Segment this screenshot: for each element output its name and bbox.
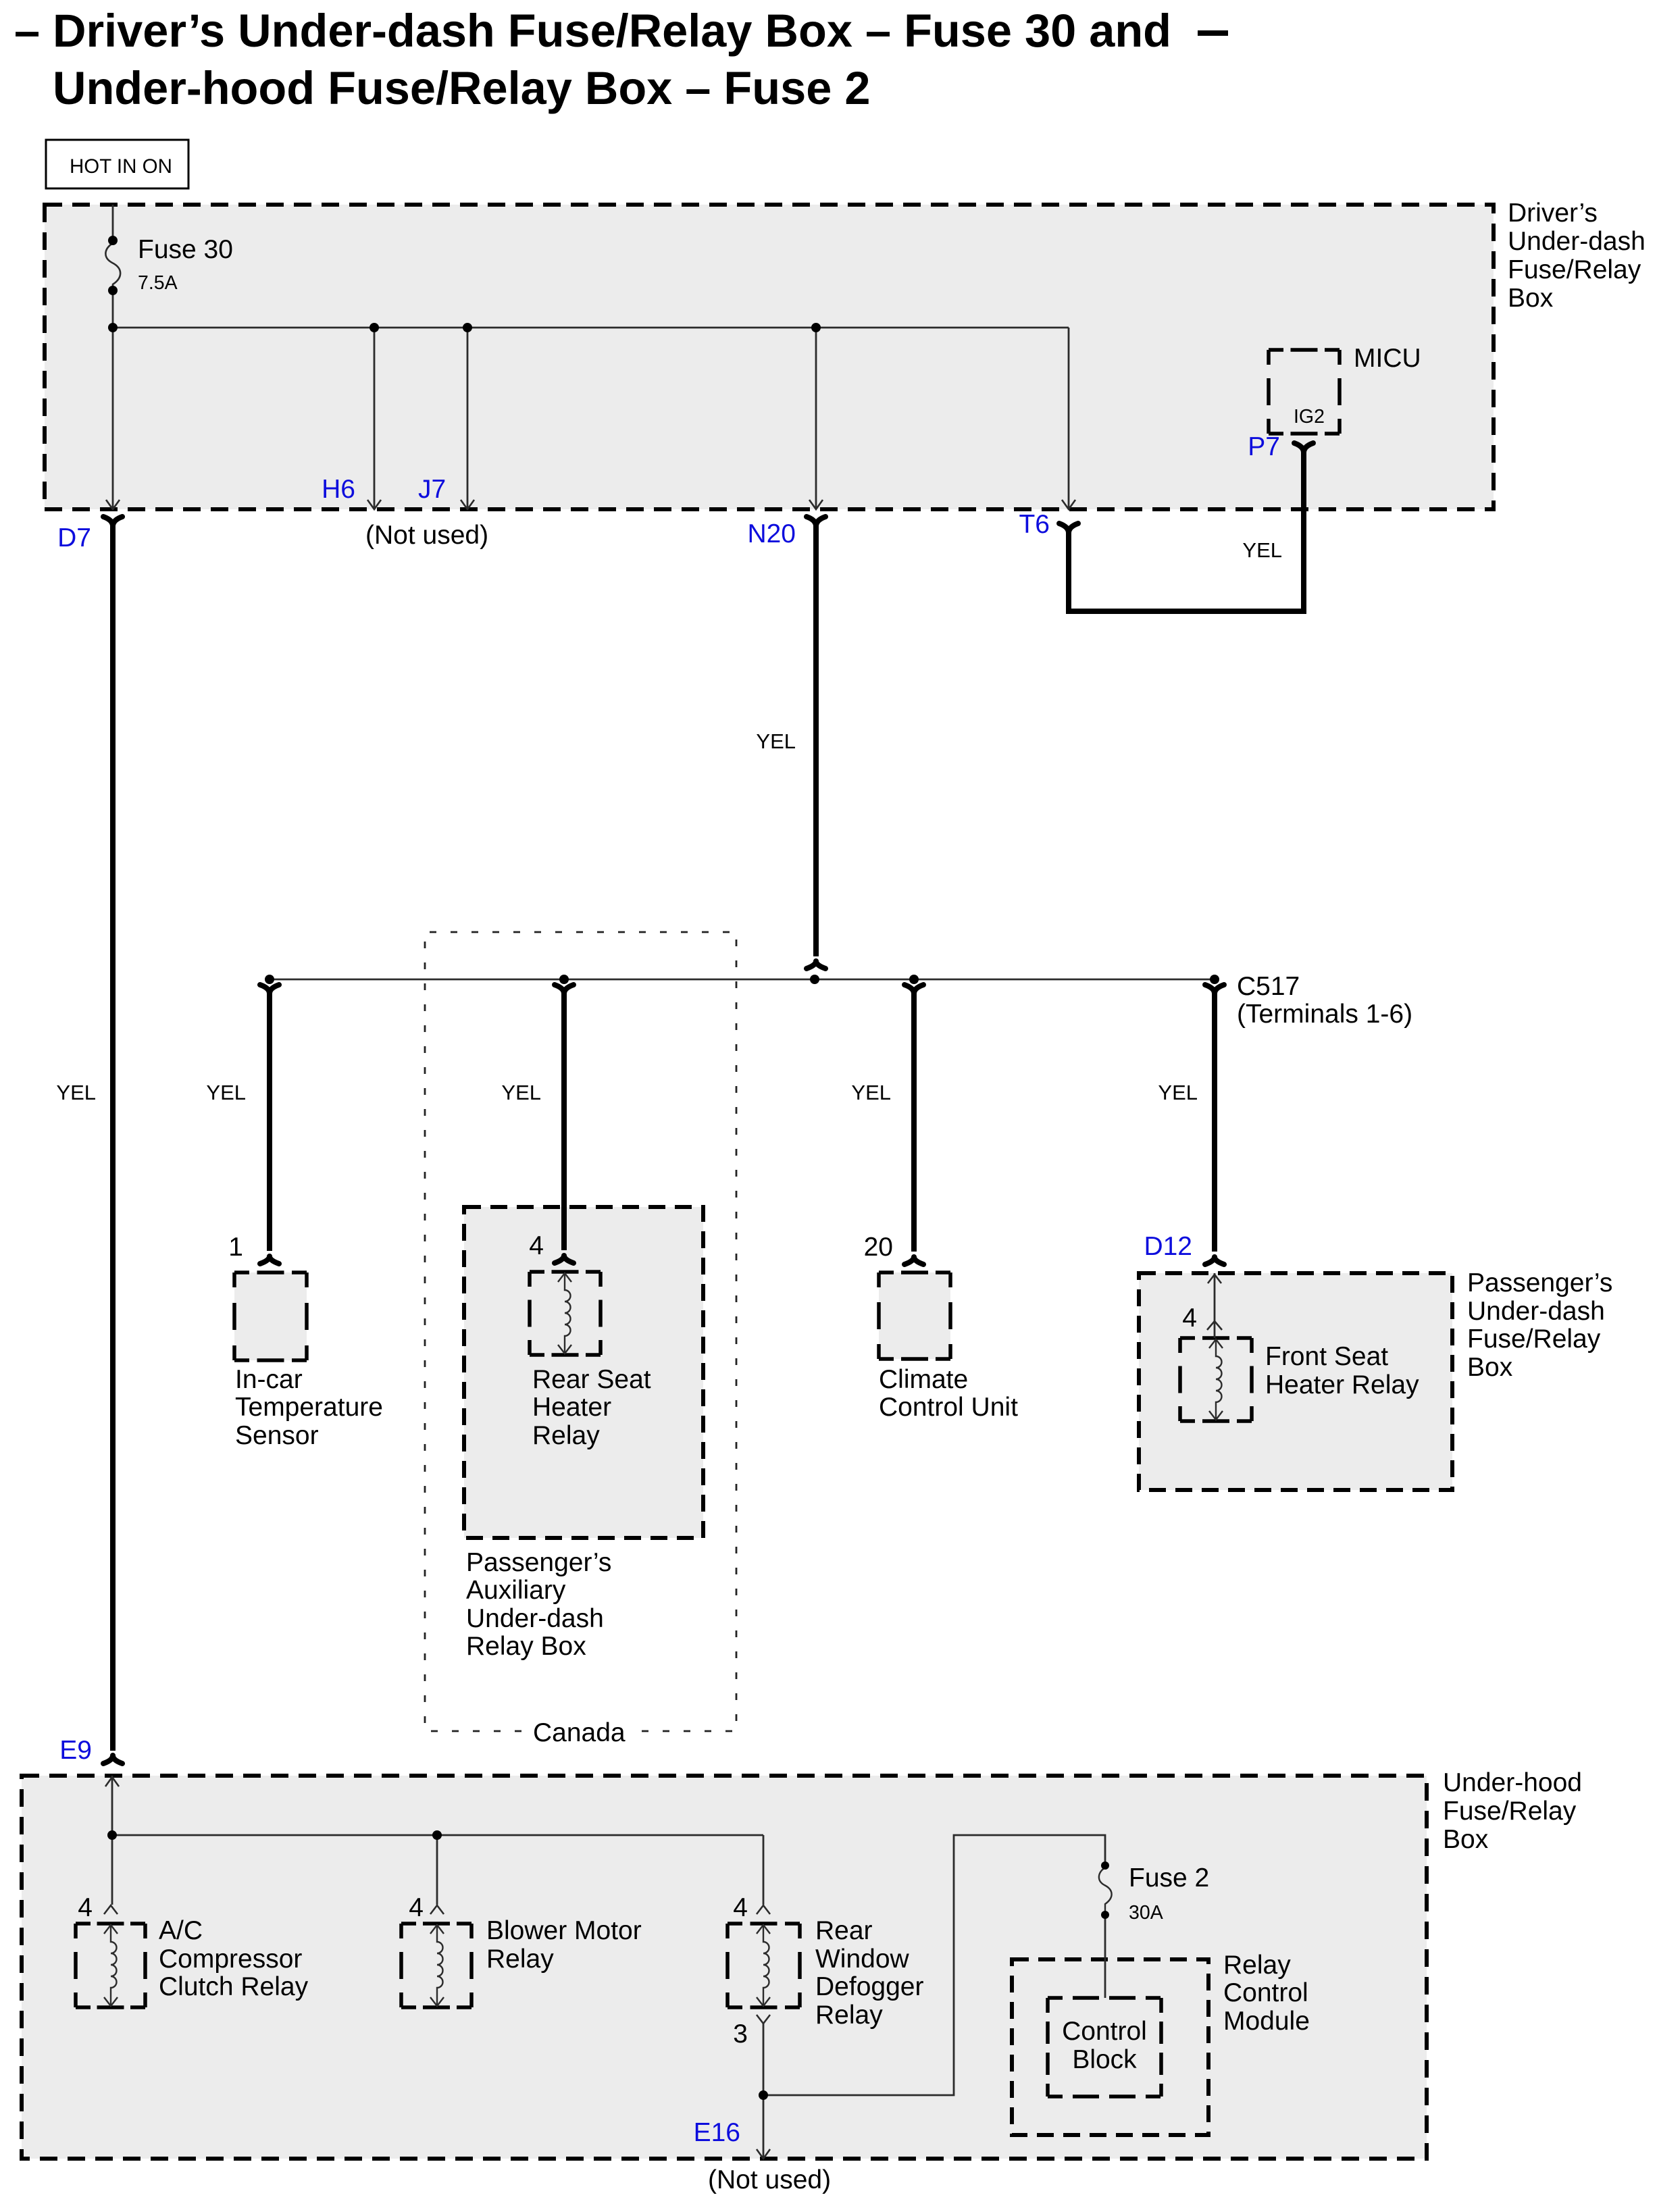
svg-text:Compressor: Compressor	[159, 1945, 302, 1974]
svg-text:Front Seat: Front Seat	[1265, 1342, 1388, 1371]
svg-text:Driver’s: Driver’s	[1508, 199, 1598, 228]
svg-text:Climate: Climate	[879, 1365, 968, 1394]
svg-text:–: –	[14, 5, 40, 57]
svg-text:7.5A: 7.5A	[138, 272, 178, 294]
svg-text:Window: Window	[815, 1945, 910, 1974]
svg-text:In-car: In-car	[235, 1365, 303, 1394]
svg-text:Rear: Rear	[815, 1916, 873, 1945]
svg-text:YEL: YEL	[1158, 1081, 1198, 1104]
svg-text:30A: 30A	[1129, 1902, 1163, 1924]
svg-text:Heater: Heater	[532, 1393, 611, 1422]
svg-text:Module: Module	[1223, 2007, 1310, 2036]
svg-text:4: 4	[1182, 1304, 1197, 1333]
svg-text:YEL: YEL	[501, 1081, 541, 1104]
svg-text:Under-dash: Under-dash	[466, 1604, 604, 1633]
svg-text:Relay: Relay	[532, 1421, 600, 1450]
svg-text:YEL: YEL	[851, 1081, 891, 1104]
svg-text:Under-hood: Under-hood	[1443, 1768, 1582, 1797]
svg-text:Blower Motor: Blower Motor	[486, 1916, 642, 1945]
svg-text:Canada: Canada	[533, 1718, 626, 1747]
svg-text:Control: Control	[1223, 1978, 1308, 2007]
svg-text:20: 20	[864, 1233, 893, 1262]
svg-text:Control: Control	[1062, 2017, 1147, 2046]
svg-text:J7: J7	[418, 475, 446, 504]
svg-text:(Not used): (Not used)	[365, 521, 488, 550]
svg-text:C517: C517	[1237, 972, 1300, 1001]
svg-text:3: 3	[733, 2020, 748, 2049]
svg-text:YEL: YEL	[1242, 538, 1282, 562]
svg-text:HOT IN ON: HOT IN ON	[70, 155, 172, 178]
svg-text:Control Unit: Control Unit	[879, 1393, 1018, 1422]
svg-text:P7: P7	[1248, 432, 1280, 461]
svg-text:Passenger’s: Passenger’s	[1467, 1268, 1612, 1297]
svg-text:D7: D7	[57, 523, 91, 552]
svg-text:Rear Seat: Rear Seat	[532, 1365, 651, 1394]
svg-text:Fuse 30: Fuse 30	[138, 235, 233, 264]
svg-text:D12: D12	[1144, 1232, 1192, 1261]
svg-text:Fuse 2: Fuse 2	[1129, 1863, 1209, 1893]
svg-text:Relay: Relay	[1223, 1951, 1291, 1980]
svg-text:H6: H6	[322, 475, 355, 504]
svg-text:4: 4	[733, 1893, 748, 1922]
svg-text:Relay: Relay	[815, 2001, 883, 2030]
svg-text:Fuse/Relay: Fuse/Relay	[1443, 1797, 1577, 1826]
svg-text:Sensor: Sensor	[235, 1421, 319, 1450]
svg-text:4: 4	[409, 1893, 424, 1922]
svg-text:YEL: YEL	[756, 729, 796, 753]
svg-text:Defogger: Defogger	[815, 1972, 923, 2001]
svg-text:Driver’s Under-dash Fuse/Relay: Driver’s Under-dash Fuse/Relay Box – Fus…	[53, 5, 1171, 57]
svg-text:Under-dash: Under-dash	[1508, 227, 1646, 256]
svg-text:E16: E16	[694, 2118, 740, 2147]
svg-text:E9: E9	[59, 1736, 92, 1765]
svg-text:A/C: A/C	[159, 1916, 203, 1945]
svg-text:1: 1	[228, 1233, 243, 1262]
svg-text:Temperature: Temperature	[235, 1393, 383, 1422]
svg-text:T6: T6	[1019, 510, 1050, 539]
svg-text:Relay: Relay	[486, 1945, 554, 1974]
svg-text:Box: Box	[1508, 284, 1554, 313]
svg-text:N20: N20	[747, 519, 796, 548]
svg-text:Under-hood Fuse/Relay Box – Fu: Under-hood Fuse/Relay Box – Fuse 2	[53, 62, 870, 114]
svg-text:(Terminals 1-6): (Terminals 1-6)	[1237, 1000, 1412, 1029]
svg-text:Passenger’s: Passenger’s	[466, 1548, 611, 1577]
svg-text:Clutch Relay: Clutch Relay	[159, 1972, 309, 2001]
svg-text:Heater Relay: Heater Relay	[1265, 1370, 1419, 1399]
svg-text:Block: Block	[1072, 2045, 1137, 2074]
svg-text:(Not used): (Not used)	[708, 2165, 831, 2194]
svg-text:YEL: YEL	[56, 1081, 96, 1104]
svg-text:Box: Box	[1443, 1825, 1489, 1854]
svg-text:Box: Box	[1467, 1353, 1513, 1382]
svg-text:IG2: IG2	[1294, 406, 1325, 428]
svg-text:MICU: MICU	[1354, 344, 1421, 373]
svg-text:Under-dash: Under-dash	[1467, 1297, 1605, 1326]
svg-text:Fuse/Relay: Fuse/Relay	[1467, 1324, 1601, 1354]
svg-text:Fuse/Relay: Fuse/Relay	[1508, 255, 1641, 284]
svg-text:YEL: YEL	[206, 1081, 246, 1104]
svg-text:4: 4	[78, 1893, 93, 1922]
svg-text:Relay Box: Relay Box	[466, 1632, 586, 1661]
svg-text:4: 4	[529, 1231, 544, 1260]
svg-text:Auxiliary: Auxiliary	[466, 1576, 566, 1605]
